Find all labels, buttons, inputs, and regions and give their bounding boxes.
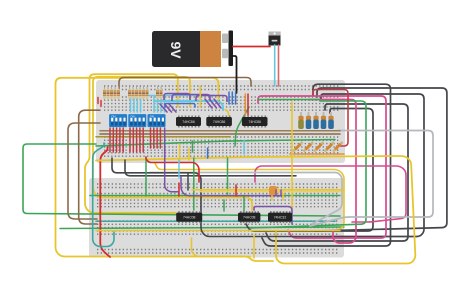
wire yellow stub bottom BB2 xyxy=(253,235,255,258)
wire W1 yellow loop (far left) xyxy=(56,78,274,261)
wire red stub xyxy=(247,94,249,115)
wire blue hook xyxy=(165,104,195,108)
svg-text:9V: 9V xyxy=(168,41,184,59)
wire W8 brown loop (left inner) xyxy=(68,123,100,219)
wire purple diagonal 2 xyxy=(165,104,172,112)
wire red edge stub 1 xyxy=(97,98,99,104)
wire blue stub bb1 low xyxy=(207,148,209,158)
wire purple diagonal second set 3 xyxy=(214,99,221,108)
wire green row BB1 xyxy=(258,99,320,101)
wire red stub BB2 a xyxy=(178,183,180,196)
wire maroon lead a3 xyxy=(116,128,118,152)
IC U1 74HC86 xyxy=(176,116,201,128)
IC U5 74HC08 xyxy=(238,211,260,223)
wire brown row A across BB1 xyxy=(100,130,340,132)
wire C1 crimson loop (right) xyxy=(313,90,348,147)
wire Y5 yellow BB2 bottom exit xyxy=(192,238,251,257)
resistor bank R14-R18 (standing, BB1 right) xyxy=(298,112,334,129)
wire green channel vertical a xyxy=(193,158,195,210)
wire cyan dip lead 1 xyxy=(130,95,132,112)
IC U2 74HC86 xyxy=(206,116,232,128)
wire battery positive lead xyxy=(233,46,270,48)
wire maroon lead b1 xyxy=(129,128,131,152)
wire K1 dark (between boards) xyxy=(112,158,330,237)
wire yellow stub 2 xyxy=(199,86,201,107)
wire P3 pink long (between boards) xyxy=(255,166,406,222)
wire yellow L mid xyxy=(225,110,229,116)
wire D4 dark loop xyxy=(266,104,408,241)
wire W3b green long row xyxy=(96,140,335,147)
wire purple diagonal 1 xyxy=(160,104,167,112)
wire W9 brown top loop xyxy=(119,78,251,96)
svg-text:74HC32: 74HC32 xyxy=(274,216,287,220)
wire regulator ground red xyxy=(278,45,280,86)
wire P2 pink loop xyxy=(310,100,356,244)
wire orange part BB2 xyxy=(269,186,277,195)
wire D5 dark loop xyxy=(246,109,373,232)
wire green stub bb1 low xyxy=(192,141,194,152)
wire purple marks BB2 xyxy=(276,190,281,196)
wire yellow second mid channel xyxy=(155,163,344,231)
wire Y3 yellow row across BB2 xyxy=(96,230,340,232)
wire maroon lead a5 xyxy=(122,128,124,152)
wire purple diagonal 3 xyxy=(169,104,176,112)
wire blue vertical 1 xyxy=(228,92,230,104)
wire cyan dip2 lead 3 xyxy=(160,96,162,112)
wire G1 green loop (right) xyxy=(250,101,366,228)
wire purple diagonal second set 1 xyxy=(205,99,212,108)
wire cyan dip lead 2 xyxy=(133,95,135,112)
svg-text:74HC86: 74HC86 xyxy=(248,120,261,124)
DIP switch S3 xyxy=(148,114,166,127)
wire green vertical mid xyxy=(145,157,147,196)
wire maroon lead a2 xyxy=(112,128,114,152)
wire maroon lead c4 xyxy=(159,128,161,148)
wire dark stub BB2 xyxy=(187,174,189,190)
wire green channel vertical b xyxy=(227,158,229,194)
wire purple diagonal second set 2 xyxy=(210,99,217,108)
wire maroon lead c3 xyxy=(156,128,158,148)
wire W6 teal (BB1 to BB2 left) xyxy=(93,143,114,247)
wire maroon lead b4 xyxy=(139,128,141,152)
wire purple bridge 2 xyxy=(172,95,210,102)
wire orange stub xyxy=(244,94,246,115)
wire black battery negative lead xyxy=(233,56,237,93)
wire red edge stub 2 xyxy=(100,101,102,107)
wire D1 dark loop xyxy=(262,84,391,246)
wire W7 brown loop (left) xyxy=(79,110,100,224)
wire green row BB2 lower xyxy=(60,227,344,229)
wire yellow stub bb1 low b xyxy=(188,148,190,160)
regulator U7 (7805) xyxy=(269,32,281,46)
IC U3 74HC86 xyxy=(242,116,268,128)
wire cyan stub right xyxy=(243,140,245,154)
battery BAT1 9V xyxy=(152,31,233,68)
wire cyan dip lead 3 xyxy=(136,95,138,112)
breadboard BB1 xyxy=(96,80,345,163)
wire cyan bus upper xyxy=(141,95,214,97)
wire P1 pink loop xyxy=(258,96,386,238)
wire red stub BB2 b xyxy=(235,185,237,196)
svg-text:74HC86: 74HC86 xyxy=(213,120,226,124)
wire green stub BB2 a xyxy=(223,200,225,211)
wire teal row BB2 xyxy=(96,220,335,222)
wire green stub BB2 b xyxy=(243,196,245,211)
wire Y1 yellow loop (right) xyxy=(96,156,415,264)
resistor bank R19-R22 (diagonal, BB1 right) xyxy=(293,142,343,152)
wire purple BB2 jog xyxy=(181,177,282,196)
wire yellow small frame BB2 xyxy=(272,192,283,200)
wire purple BB2 row xyxy=(254,207,292,225)
wire W2b yellow loop (inner, to BB2) xyxy=(93,77,252,210)
wire cyan channel stub xyxy=(178,160,180,178)
wire cyan bus horizontal xyxy=(154,101,223,110)
wire purple bridge 3 xyxy=(196,96,227,103)
wire orange row BB1 right xyxy=(290,153,344,155)
wire green diagonal right xyxy=(235,107,249,146)
breadboard BB2 xyxy=(89,178,344,258)
wire cyan dip2 lead 1 xyxy=(153,96,155,112)
DIP switch S1 xyxy=(109,114,127,127)
wire maroon lead c1 xyxy=(150,128,152,148)
wire regulator output cyan xyxy=(274,45,276,86)
wire LG1 gray loop (right) xyxy=(310,131,433,227)
wire dark channel lower xyxy=(125,160,296,176)
wire yellow band BB2 a xyxy=(192,189,344,191)
wire maroon lead b5 xyxy=(142,128,144,152)
wire blue vertical 3 xyxy=(235,92,237,104)
IC U6 74HC32 xyxy=(268,211,292,223)
svg-text:74HC08: 74HC08 xyxy=(183,216,196,220)
wire red channel wire xyxy=(146,157,199,182)
wire yellow band BB2 b xyxy=(200,191,340,193)
wire green row BB2 upper xyxy=(90,195,340,197)
wire maroon lead a4 xyxy=(119,128,121,152)
wire olive row BB1 xyxy=(96,136,230,138)
wire D2 dark loop (outermost) xyxy=(315,88,447,231)
wire brown row B across BB1 xyxy=(100,133,340,135)
wire maroon lead b3 xyxy=(136,128,138,152)
resistor bank R1-R13 (vertical, BB1 left) xyxy=(103,87,163,101)
wire D3 dark loop xyxy=(321,94,424,237)
wire yellow stub bb1 low a xyxy=(179,144,181,163)
wire cyan dip lead 4 xyxy=(140,95,142,112)
wire purple channel vertical xyxy=(165,128,178,192)
wire W3 green loop (far left) xyxy=(23,144,340,216)
wire purple bridge 1 xyxy=(164,94,190,101)
wire W5 red (BB1 to BB2 left) xyxy=(100,147,110,257)
wire cyan dip2 lead 4 xyxy=(164,96,166,112)
wire cyan dip2 lead 2 xyxy=(157,96,159,112)
IC U4 74HC08 xyxy=(176,211,202,223)
wire LG2 gray (between boards) xyxy=(150,173,342,225)
wire maroon lead a1 xyxy=(109,128,111,152)
wire yellow vertical mid xyxy=(291,102,293,210)
svg-text:74HC08: 74HC08 xyxy=(243,216,256,220)
wire W2 yellow loop (hugging BB1 left edge) xyxy=(85,74,178,213)
DIP switch S2 xyxy=(128,114,146,127)
wire maroon lead b2 xyxy=(132,128,134,152)
wire maroon lead c2 xyxy=(153,128,155,148)
svg-text:74HC86: 74HC86 xyxy=(182,120,195,124)
wire blue vertical 2 xyxy=(231,92,233,104)
